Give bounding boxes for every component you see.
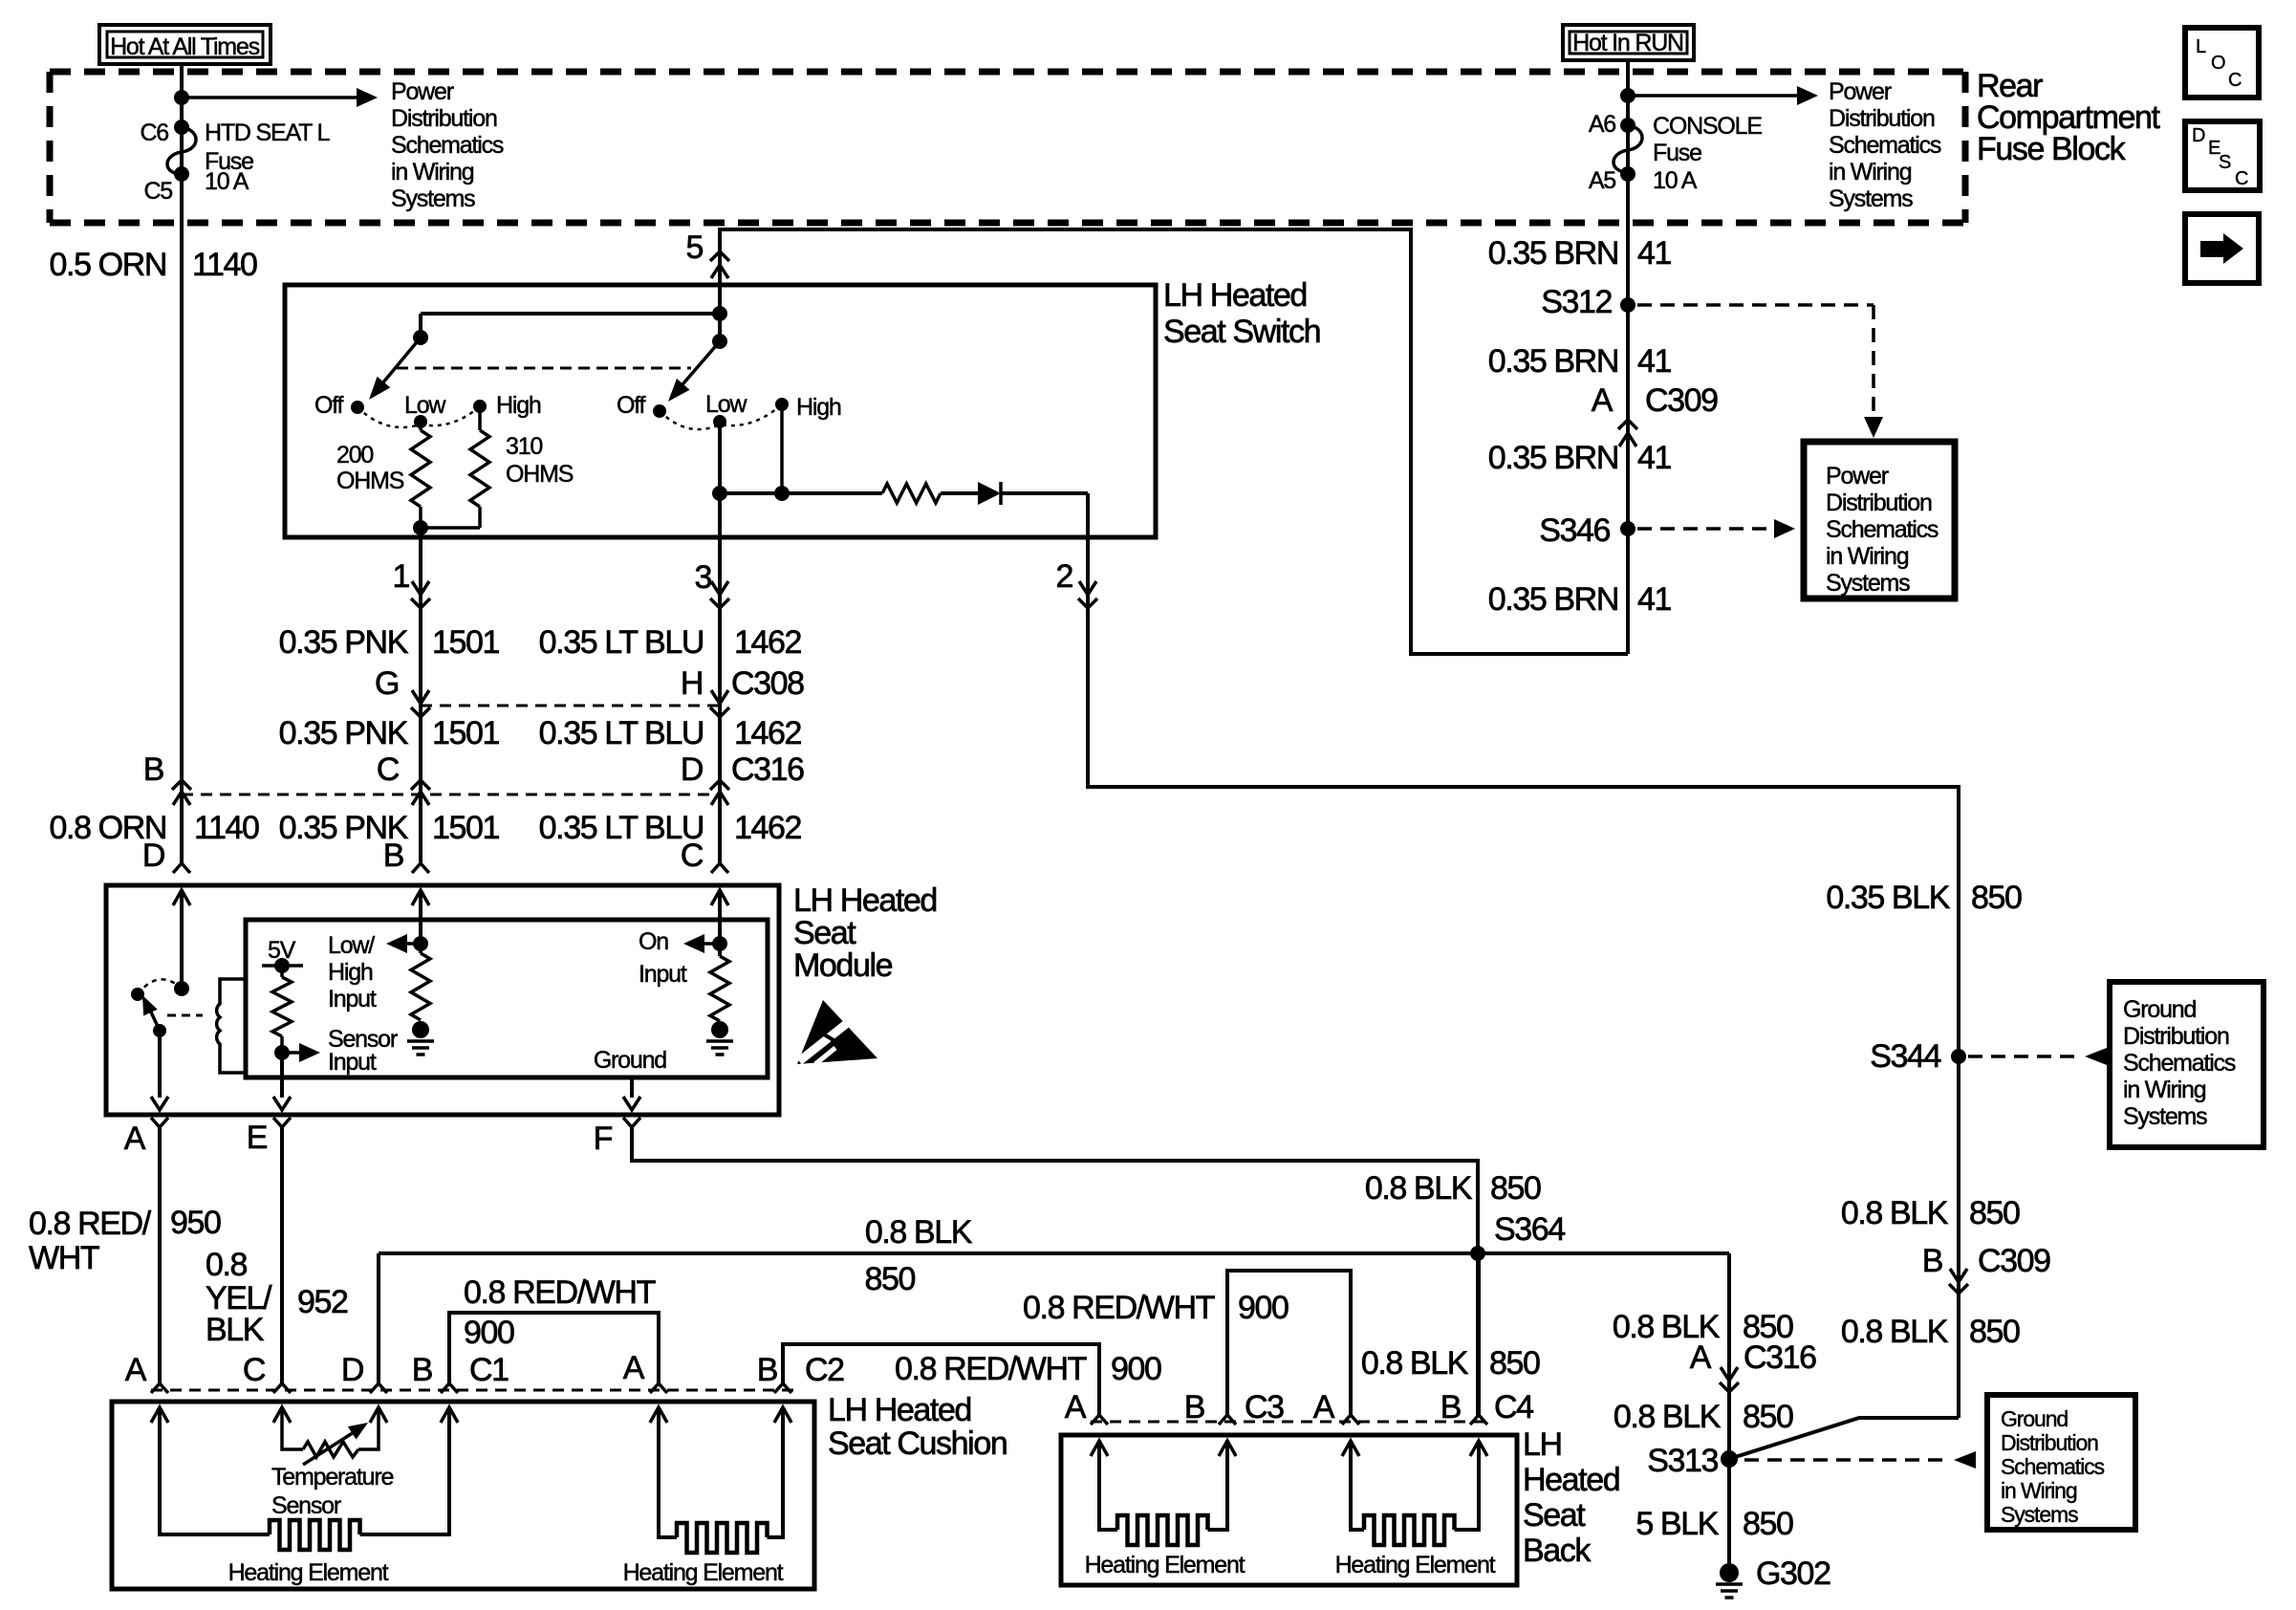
svg-text:Low: Low bbox=[705, 391, 747, 418]
svg-text:Fuse: Fuse bbox=[1653, 140, 1701, 166]
svg-text:0.8: 0.8 bbox=[206, 1247, 248, 1283]
svg-text:0.8 RED/WHT: 0.8 RED/WHT bbox=[1023, 1290, 1215, 1326]
svg-text:C4: C4 bbox=[1494, 1389, 1533, 1425]
svg-text:WHT: WHT bbox=[29, 1240, 99, 1276]
svg-text:Ground: Ground bbox=[594, 1047, 666, 1074]
svg-text:41: 41 bbox=[1637, 235, 1672, 272]
svg-text:Input: Input bbox=[328, 986, 377, 1012]
svg-text:D: D bbox=[681, 751, 703, 788]
svg-text:0.5 ORN: 0.5 ORN bbox=[50, 247, 166, 283]
svg-text:Distribution: Distribution bbox=[2123, 1023, 2229, 1050]
svg-text:0.8 RED/WHT: 0.8 RED/WHT bbox=[464, 1274, 656, 1311]
svg-text:F: F bbox=[594, 1120, 613, 1157]
svg-text:B: B bbox=[412, 1352, 432, 1388]
svg-text:G302: G302 bbox=[1756, 1556, 1830, 1592]
svg-text:Low/: Low/ bbox=[328, 932, 375, 959]
svg-text:Seat Cushion: Seat Cushion bbox=[828, 1425, 1007, 1462]
svg-text:LH Heated: LH Heated bbox=[793, 882, 937, 919]
svg-text:Heating Element: Heating Element bbox=[228, 1559, 389, 1586]
svg-text:G: G bbox=[375, 665, 399, 702]
svg-text:1462: 1462 bbox=[734, 715, 802, 751]
svg-text:C1: C1 bbox=[469, 1352, 509, 1388]
svg-text:Fuse Block: Fuse Block bbox=[1977, 131, 2127, 167]
svg-text:CONSOLE: CONSOLE bbox=[1653, 113, 1762, 140]
svg-text:Hot At All Times: Hot At All Times bbox=[110, 33, 260, 60]
svg-text:850: 850 bbox=[1743, 1399, 1793, 1435]
svg-text:Schematics: Schematics bbox=[1829, 132, 1941, 159]
svg-text:952: 952 bbox=[297, 1284, 348, 1320]
svg-text:3: 3 bbox=[694, 559, 711, 596]
svg-text:Module: Module bbox=[793, 947, 893, 984]
svg-text:41: 41 bbox=[1637, 343, 1672, 380]
svg-text:Power: Power bbox=[391, 78, 454, 105]
svg-text:B: B bbox=[1184, 1389, 1204, 1425]
svg-text:1501: 1501 bbox=[432, 624, 500, 661]
svg-text:Heating Element: Heating Element bbox=[1335, 1552, 1496, 1578]
svg-text:850: 850 bbox=[864, 1261, 915, 1297]
svg-text:900: 900 bbox=[1238, 1290, 1289, 1326]
svg-text:1462: 1462 bbox=[734, 810, 802, 846]
svg-text:Off: Off bbox=[617, 392, 646, 419]
svg-text:950: 950 bbox=[170, 1205, 221, 1241]
svg-text:Seat Switch: Seat Switch bbox=[1163, 314, 1320, 350]
svg-text:LH: LH bbox=[1523, 1426, 1562, 1463]
svg-text:0.35 LT BLU: 0.35 LT BLU bbox=[539, 810, 704, 846]
svg-text:Heated: Heated bbox=[1523, 1462, 1619, 1498]
svg-text:Seat: Seat bbox=[1523, 1497, 1586, 1534]
svg-text:C: C bbox=[681, 838, 704, 874]
svg-text:H: H bbox=[681, 665, 703, 702]
svg-text:On: On bbox=[639, 928, 668, 955]
svg-text:HTD SEAT L: HTD SEAT L bbox=[205, 120, 330, 146]
svg-text:A: A bbox=[1313, 1389, 1335, 1425]
svg-text:A: A bbox=[623, 1350, 645, 1386]
svg-text:in Wiring: in Wiring bbox=[1826, 543, 1909, 570]
svg-text:0.35 LT BLU: 0.35 LT BLU bbox=[539, 715, 704, 751]
svg-text:0.8 BLK: 0.8 BLK bbox=[1614, 1399, 1722, 1435]
svg-text:A5: A5 bbox=[1589, 167, 1615, 194]
svg-text:310: 310 bbox=[506, 433, 542, 460]
svg-text:Input: Input bbox=[639, 961, 687, 988]
svg-text:1140: 1140 bbox=[194, 810, 259, 846]
svg-text:O: O bbox=[2211, 53, 2225, 74]
svg-text:Sensor: Sensor bbox=[271, 1492, 341, 1519]
svg-text:Schematics: Schematics bbox=[1826, 516, 1939, 543]
svg-text:850: 850 bbox=[1489, 1345, 1540, 1382]
svg-text:Distribution: Distribution bbox=[2001, 1430, 2098, 1455]
svg-text:C309: C309 bbox=[1645, 382, 1718, 419]
svg-text:Distribution: Distribution bbox=[391, 105, 497, 132]
svg-text:S346: S346 bbox=[1539, 512, 1610, 549]
svg-text:S364: S364 bbox=[1494, 1211, 1565, 1248]
svg-text:1501: 1501 bbox=[432, 715, 500, 751]
svg-text:Schematics: Schematics bbox=[391, 132, 504, 159]
svg-text:900: 900 bbox=[464, 1315, 514, 1351]
svg-text:OHMS: OHMS bbox=[506, 461, 574, 488]
svg-text:Low: Low bbox=[404, 392, 446, 419]
svg-text:C316: C316 bbox=[1744, 1339, 1816, 1376]
svg-text:Distribution: Distribution bbox=[1826, 490, 1932, 516]
svg-text:High: High bbox=[328, 959, 373, 986]
svg-text:OHMS: OHMS bbox=[336, 468, 404, 494]
svg-text:200: 200 bbox=[336, 442, 373, 468]
svg-text:Systems: Systems bbox=[2123, 1103, 2207, 1130]
svg-text:C308: C308 bbox=[731, 665, 804, 702]
svg-text:Input: Input bbox=[328, 1049, 377, 1076]
svg-text:0.35 PNK: 0.35 PNK bbox=[279, 715, 409, 751]
svg-text:Systems: Systems bbox=[1826, 570, 1910, 597]
svg-text:A6: A6 bbox=[1589, 111, 1615, 138]
svg-text:D: D bbox=[142, 838, 164, 874]
svg-text:5: 5 bbox=[685, 229, 703, 266]
svg-text:C: C bbox=[243, 1352, 266, 1388]
svg-text:C: C bbox=[377, 751, 400, 788]
svg-text:D: D bbox=[2192, 125, 2205, 146]
svg-text:Hot In RUN: Hot In RUN bbox=[1572, 30, 1683, 56]
svg-text:A: A bbox=[1065, 1389, 1087, 1425]
svg-text:C: C bbox=[2235, 168, 2248, 189]
svg-text:A: A bbox=[125, 1352, 147, 1388]
svg-text:Temperature: Temperature bbox=[271, 1464, 393, 1490]
svg-text:0.35 PNK: 0.35 PNK bbox=[279, 624, 409, 661]
svg-text:41: 41 bbox=[1637, 581, 1672, 618]
svg-text:2: 2 bbox=[1055, 558, 1072, 595]
svg-text:C5: C5 bbox=[143, 178, 172, 205]
svg-text:850: 850 bbox=[1971, 880, 2022, 916]
svg-text:B: B bbox=[757, 1352, 777, 1388]
svg-text:Off: Off bbox=[314, 392, 344, 419]
svg-text:BLK: BLK bbox=[206, 1312, 265, 1348]
svg-text:0.8 BLK: 0.8 BLK bbox=[865, 1214, 973, 1251]
svg-text:Distribution: Distribution bbox=[1829, 105, 1935, 132]
svg-text:0.8 RED/: 0.8 RED/ bbox=[29, 1206, 152, 1242]
svg-text:Systems: Systems bbox=[391, 185, 475, 212]
svg-text:Ground: Ground bbox=[2001, 1406, 2068, 1431]
svg-text:High: High bbox=[796, 394, 841, 421]
svg-text:C309: C309 bbox=[1978, 1243, 2050, 1279]
svg-text:C316: C316 bbox=[731, 751, 804, 788]
svg-text:850: 850 bbox=[1969, 1195, 2020, 1231]
svg-text:0.35 BRN: 0.35 BRN bbox=[1488, 581, 1618, 618]
svg-text:S312: S312 bbox=[1541, 284, 1612, 320]
svg-text:1462: 1462 bbox=[734, 624, 802, 661]
svg-text:0.35 BRN: 0.35 BRN bbox=[1488, 235, 1618, 272]
svg-text:in Wiring: in Wiring bbox=[1829, 159, 1912, 185]
svg-text:0.35 LT BLU: 0.35 LT BLU bbox=[539, 624, 704, 661]
svg-text:A: A bbox=[1690, 1339, 1712, 1376]
svg-text:Seat: Seat bbox=[793, 915, 856, 951]
svg-text:1140: 1140 bbox=[192, 247, 257, 283]
svg-text:B: B bbox=[1922, 1243, 1942, 1279]
svg-text:0.35 BRN: 0.35 BRN bbox=[1488, 343, 1618, 380]
svg-text:Power: Power bbox=[1826, 463, 1889, 490]
svg-text:LH Heated: LH Heated bbox=[1163, 277, 1307, 314]
svg-text:A: A bbox=[1592, 382, 1614, 419]
svg-text:S344: S344 bbox=[1870, 1038, 1940, 1075]
svg-text:B: B bbox=[383, 838, 403, 874]
svg-text:Heating Element: Heating Element bbox=[1085, 1552, 1245, 1578]
svg-text:Ground: Ground bbox=[2123, 996, 2196, 1023]
svg-text:0.8 BLK: 0.8 BLK bbox=[1361, 1345, 1469, 1382]
svg-text:850: 850 bbox=[1490, 1170, 1541, 1207]
svg-text:Schematics: Schematics bbox=[2001, 1454, 2104, 1479]
svg-text:S: S bbox=[2219, 152, 2231, 173]
svg-text:B: B bbox=[143, 751, 163, 788]
svg-text:Systems: Systems bbox=[1829, 185, 1913, 212]
svg-text:C6: C6 bbox=[140, 120, 168, 146]
svg-text:B: B bbox=[1440, 1389, 1461, 1425]
svg-text:900: 900 bbox=[1111, 1351, 1161, 1387]
svg-text:Systems: Systems bbox=[2001, 1502, 2078, 1527]
svg-text:in Wiring: in Wiring bbox=[2001, 1478, 2077, 1503]
svg-text:A: A bbox=[124, 1120, 146, 1157]
svg-text:0.8 BLK: 0.8 BLK bbox=[1841, 1195, 1949, 1231]
svg-text:0.8 BLK: 0.8 BLK bbox=[1841, 1314, 1949, 1350]
svg-text:1501: 1501 bbox=[432, 810, 500, 846]
svg-text:in Wiring: in Wiring bbox=[391, 159, 474, 185]
svg-text:LH Heated: LH Heated bbox=[828, 1392, 971, 1428]
svg-text:Heating Element: Heating Element bbox=[623, 1559, 784, 1586]
svg-text:Back: Back bbox=[1523, 1533, 1592, 1569]
svg-text:in Wiring: in Wiring bbox=[2123, 1077, 2206, 1103]
svg-text:C2: C2 bbox=[805, 1352, 844, 1388]
svg-text:Power: Power bbox=[1829, 78, 1892, 105]
svg-text:D: D bbox=[341, 1352, 363, 1388]
svg-text:1: 1 bbox=[392, 558, 409, 595]
svg-text:S313: S313 bbox=[1647, 1443, 1718, 1479]
svg-text:5 BLK: 5 BLK bbox=[1635, 1506, 1719, 1542]
svg-text:E: E bbox=[247, 1120, 268, 1156]
svg-text:41: 41 bbox=[1637, 440, 1672, 476]
svg-text:0.8 BLK: 0.8 BLK bbox=[1365, 1170, 1473, 1207]
svg-text:10 A: 10 A bbox=[205, 168, 249, 195]
svg-text:0.8 RED/WHT: 0.8 RED/WHT bbox=[895, 1351, 1087, 1387]
svg-text:C: C bbox=[2228, 70, 2242, 91]
svg-text:Schematics: Schematics bbox=[2123, 1050, 2236, 1077]
svg-text:L: L bbox=[2196, 36, 2206, 57]
svg-text:High: High bbox=[496, 392, 541, 419]
svg-text:C3: C3 bbox=[1245, 1389, 1284, 1425]
svg-text:850: 850 bbox=[1969, 1314, 2020, 1350]
svg-text:10 A: 10 A bbox=[1653, 167, 1698, 194]
svg-text:850: 850 bbox=[1743, 1506, 1793, 1542]
svg-text:0.35 BLK: 0.35 BLK bbox=[1826, 880, 1950, 916]
svg-text:0.35 BRN: 0.35 BRN bbox=[1488, 440, 1618, 476]
